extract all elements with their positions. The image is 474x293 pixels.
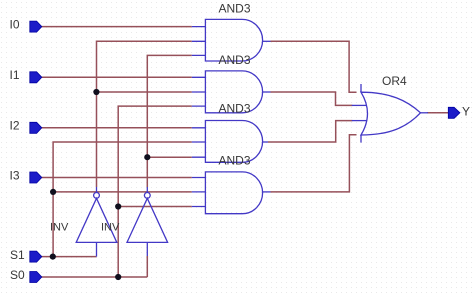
junction S1 row at x53 bbox=[50, 254, 56, 260]
wire S0 branch to AND4 input C bbox=[118, 206, 192, 208]
wire S0bar branch to AND1 input C bbox=[147, 55, 192, 187]
svg-text:INV: INV bbox=[50, 222, 69, 234]
and-gate U4 AND3 bbox=[192, 154, 271, 214]
wire S0 row bbox=[42, 276, 148, 278]
wire AND4 output to OR4 input 4 bbox=[271, 135, 357, 192]
wire S1bar branch to AND1 input B bbox=[97, 41, 192, 187]
svg-text:AND3: AND3 bbox=[219, 2, 251, 16]
input pin I3 bbox=[10, 169, 42, 183]
wire I3 row to AND4 input A bbox=[42, 177, 192, 179]
svg-text:I0: I0 bbox=[10, 18, 20, 32]
wire OR4 output to Y pin bbox=[427, 112, 448, 114]
input pin I2 bbox=[10, 119, 42, 134]
inverter U6 INV bbox=[50, 187, 117, 257]
junction S1 vertical at AND4 mid row bbox=[50, 189, 56, 195]
junction S0 vertical at AND4 bottom row bbox=[115, 203, 121, 209]
input pin S0 bbox=[10, 268, 42, 283]
svg-text:OR4: OR4 bbox=[382, 74, 407, 88]
svg-text:AND3: AND3 bbox=[219, 102, 251, 116]
and-gate U1 AND3 bbox=[192, 2, 271, 61]
wire AND3 output to OR4 input 3 bbox=[268, 121, 352, 142]
wire I1 row to AND2 input A bbox=[42, 76, 192, 78]
input pin I0 bbox=[10, 18, 42, 33]
wire I2 row to AND3 input A bbox=[42, 127, 192, 129]
wire I0 row to AND1 input A bbox=[42, 26, 192, 28]
inverter U7 INV bbox=[101, 187, 168, 256]
wire S1 branch to AND4 input B bbox=[53, 191, 192, 193]
and-gate U3 AND3 bbox=[192, 102, 268, 163]
output pin Y bbox=[448, 104, 470, 118]
svg-text:AND3: AND3 bbox=[219, 154, 251, 168]
wire S1 row bbox=[42, 256, 97, 258]
input pin S1 bbox=[10, 248, 42, 262]
wire AND1 output to OR4 input 1 bbox=[271, 41, 357, 92]
junction S0 row at x118 bbox=[115, 274, 121, 280]
wire INV2 input drop bbox=[146, 256, 148, 277]
svg-text:I1: I1 bbox=[10, 68, 20, 82]
svg-text:S1: S1 bbox=[10, 248, 25, 262]
input pin I1 bbox=[10, 68, 42, 83]
junction S0bar vertical at AND3 bottom row bbox=[144, 154, 150, 160]
wire S0bar branch to AND3 input C bbox=[147, 156, 192, 158]
junction S1bar vertical at AND2 mid row bbox=[93, 89, 99, 95]
svg-text:I2: I2 bbox=[10, 119, 20, 133]
wire S0 branch to AND2 input C bbox=[118, 106, 192, 277]
svg-text:Y: Y bbox=[462, 104, 470, 118]
or-gate U5 OR4 bbox=[352, 74, 428, 142]
svg-text:AND3: AND3 bbox=[219, 53, 251, 67]
wire S1 branch to AND3 input B bbox=[53, 142, 192, 257]
wire S1bar branch to AND2 input B bbox=[96, 91, 191, 93]
wire AND2 output to OR4 input 2 bbox=[271, 92, 353, 105]
svg-text:S0: S0 bbox=[10, 268, 25, 282]
svg-text:INV: INV bbox=[101, 222, 120, 234]
and-gate U2 AND3 bbox=[192, 53, 271, 113]
svg-text:I3: I3 bbox=[10, 169, 20, 183]
